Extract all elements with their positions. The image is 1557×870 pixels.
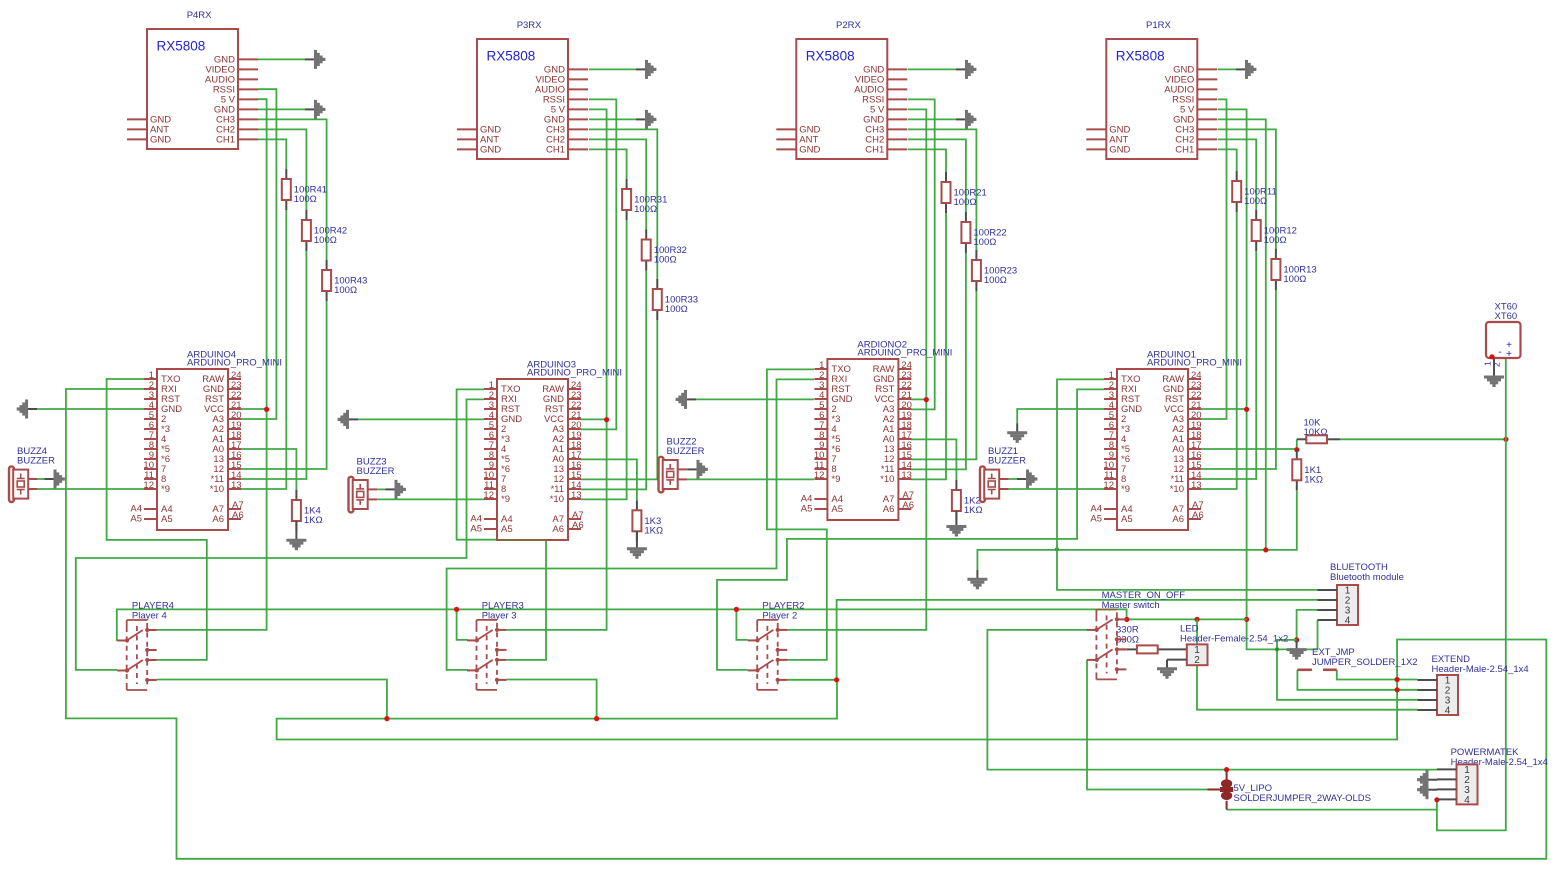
svg-text:CH1: CH1: [1175, 145, 1194, 156]
wire net GND1: 1K1 bottom to ground rail: [977, 490, 1296, 570]
svg-text:Header-Male-2.54_1x4: Header-Male-2.54_1x4: [1432, 664, 1529, 675]
RX5808 module P1RX: [1086, 20, 1217, 159]
connector XT60: [1483, 302, 1521, 368]
wire EXTEND pin2 from rail: [1397, 689, 1417, 691]
ground BUZZ4: [45, 470, 64, 489]
wire net CH1-4 upper: P4RX CH1 to R41: [258, 139, 286, 169]
junction XT60 pin1: [1489, 354, 1494, 359]
ground 1K2: [946, 511, 966, 535]
junction PLAYER3 contact4 bus: [594, 716, 599, 721]
junction EXT3 5V crossing: [1275, 647, 1279, 651]
wire player bus to PLAYER4 pivot1: [117, 609, 1127, 640]
wire net MASTER pivot1 - POWERMATEK pin1 bus: [987, 630, 1437, 770]
ground Bluetooth pin3: [1287, 640, 1307, 658]
wire net CH2-2 lower: R22 to ARDIONO2 pin14: [911, 253, 966, 469]
svg-text:P4RX: P4RX: [187, 10, 212, 21]
wire ARDUINO1 VCC stub: [1201, 408, 1247, 410]
svg-text:BUZZER: BUZZER: [667, 446, 705, 457]
wire net CH3-3 lower: R33 to ARDUINO3 pin15: [581, 320, 657, 479]
wire P2RX GND1 to ground: [908, 68, 956, 70]
ground BUZZ3: [386, 480, 405, 499]
svg-text:12: 12: [483, 490, 494, 501]
ground ARDIONO2 GND: [677, 390, 696, 409]
wire P3RX GND2 to ground: [589, 118, 636, 120]
wire P2RX GND2 to ground: [908, 118, 956, 120]
resistor 1K2 (1KΩ): [952, 480, 983, 521]
svg-text:BUZZER: BUZZER: [17, 456, 55, 467]
resistor 100R23 (100Ω): [972, 250, 1017, 291]
svg-text:RX5808: RX5808: [806, 49, 855, 64]
svg-text:A6: A6: [1192, 510, 1204, 521]
wire net CH1-1 lower: R11 to ARDUINO1 pin13: [1201, 212, 1237, 489]
ground 1K3: [627, 531, 647, 557]
resistor 100R33 (100Ω): [653, 279, 698, 320]
ground XT60: [1484, 377, 1504, 386]
svg-text:12: 12: [143, 480, 154, 491]
wire net 5V3: P3RX 5V - ARDUINO3 VCC - PLAYER3 contact1: [507, 109, 607, 630]
ground P4RX GND1: [305, 50, 324, 69]
svg-text:A5: A5: [470, 524, 482, 535]
ground BUZZ1: [1017, 470, 1036, 489]
resistor 100R42 (100Ω): [302, 210, 347, 251]
wire EXTEND pin1 from rail: [1397, 679, 1417, 681]
wire net CH3-1 lower: R13 to ARDUINO1 pin15: [1201, 290, 1276, 469]
svg-text:A5: A5: [161, 514, 173, 525]
svg-text:1KΩ: 1KΩ: [644, 525, 663, 536]
Arduino module ARDUINO4: [130, 350, 282, 531]
ground P4RX GND2: [305, 100, 324, 119]
svg-text:*9: *9: [1121, 484, 1130, 495]
wire net RXI3: ARDUINO3 RXI to PLAYER4 pivot2: [76, 399, 484, 670]
resistor 100R32 (100Ω): [642, 230, 687, 271]
wire net BT2: PLAYER2 contact4 up to Bluetooth pin2: [837, 600, 1318, 680]
svg-text:CH1: CH1: [216, 135, 235, 146]
svg-text:A5: A5: [1121, 514, 1133, 525]
svg-text:100Ω: 100Ω: [665, 304, 688, 315]
wire net CH3-3 upper: P3RX CH3 to R33: [589, 129, 657, 279]
svg-text:A5: A5: [801, 504, 813, 515]
wire ARDUINO3 VCC stub: [581, 418, 607, 420]
junction LED branch: [1194, 617, 1199, 622]
svg-text:100Ω: 100Ω: [654, 255, 677, 266]
junction TXO1 crossing: [1055, 547, 1059, 551]
wire net TXO1: ARDUINO1 TXO to Bluetooth pin1: [1057, 379, 1318, 590]
wire net CH2-4 lower: R42 to ARDUINO4 pin14: [241, 251, 306, 479]
wire EXT_JMP left pad to EXTEND pin2 rail: [1297, 670, 1397, 690]
svg-text:2: 2: [1194, 655, 1200, 666]
svg-text:CH1: CH1: [546, 145, 565, 156]
svg-text:BUZZER: BUZZER: [357, 466, 395, 477]
junction VCC3: [604, 417, 609, 422]
wire net RSSI2: P2RX RSSI to ARDIONO2 A3: [908, 99, 935, 409]
junction POWERMATEK pin4: [1434, 797, 1439, 802]
wire overlap ARDUINO3 bottom edge: [498, 539, 546, 541]
svg-text:*10: *10: [880, 474, 894, 485]
junction XT60 line: [1503, 437, 1508, 442]
wire net CH1-3 lower: R31 to ARDUINO3 pin13: [581, 220, 627, 499]
junction VCC1: [1244, 407, 1249, 412]
wire ARDIONO2 A0 to 1K2: [911, 439, 956, 480]
wire ARDUINO3 GND to ground: [358, 418, 484, 420]
wire net CH3-1 upper: P1RX CH3 to R13: [1218, 129, 1276, 249]
wire BUZZ2 top pin to ground: [686, 468, 688, 470]
svg-text:GND: GND: [799, 145, 820, 156]
wire BUZZ1 top pin to ground: [1009, 478, 1017, 480]
wire BUZZ1 bottom pin to ARDUINO1 pin12: [1009, 488, 1104, 490]
wire net EXT3: BT3 junction to EXTEND pin3: [1277, 640, 1418, 700]
wire net RSSI4: P4RX RSSI to ARDUINO4 A3: [241, 89, 276, 419]
svg-text:4: 4: [1464, 795, 1470, 806]
wire net RSSI1: P1RX RSSI to ARDUINO1 A3: [1201, 99, 1227, 419]
svg-text:10KΩ: 10KΩ: [1304, 427, 1328, 438]
ground ARDUINO1 GND: [1007, 424, 1027, 442]
wire net CH1-2 lower: R21 to ARDIONO2 pin13: [911, 213, 946, 479]
buzzer BUZZ1: [980, 446, 1026, 502]
ground 1K4: [286, 521, 306, 549]
header POWERMATEK: [1437, 747, 1548, 806]
wire PLAYER3 contact4 to bottom bus: [507, 680, 597, 719]
Arduino module ARDUINO3: [470, 360, 622, 541]
svg-text:12: 12: [1103, 480, 1114, 491]
resistor 100R21 (100Ω): [942, 172, 987, 213]
svg-text:SOLDERJUMPER_2WAY-OLDS: SOLDERJUMPER_2WAY-OLDS: [1234, 793, 1371, 804]
svg-text:GND: GND: [150, 135, 171, 146]
wire net BT3: Bluetooth pin3 to ground junction: [1297, 610, 1318, 640]
wire PLAYER2 pivot1 from bus: [736, 609, 747, 640]
switch PLAYER3: [467, 601, 524, 690]
ground POWERMATEK pin2: [1419, 770, 1438, 789]
svg-text:-: -: [1498, 347, 1501, 358]
svg-text:XT60: XT60: [1495, 311, 1518, 322]
svg-text:RX5808: RX5808: [1116, 49, 1165, 64]
wire ARDUINO3 A0 to 1K3: [581, 459, 637, 500]
wire ARDIONO2 VCC stub: [911, 398, 926, 400]
svg-text:RX5808: RX5808: [157, 39, 206, 54]
wire BUZZ4 top pin to ground: [38, 478, 45, 480]
ground P2RX GND2: [956, 110, 975, 129]
junction PLAYER4 contact4 bus: [384, 716, 389, 721]
junction PLAYER2 contact4: [834, 677, 839, 682]
junction PLAYER2 bus: [734, 607, 739, 612]
svg-text:BUZZER: BUZZER: [988, 456, 1026, 467]
wire BUZZ3 top pin to ground: [377, 488, 385, 490]
svg-text:A6: A6: [232, 510, 244, 521]
resistor 100R13 (100Ω): [1271, 249, 1316, 290]
resistor 10K (10KOhm): [1297, 418, 1340, 444]
svg-text:P1RX: P1RX: [1146, 20, 1171, 31]
resistor 100R11 (100Ω): [1232, 171, 1277, 212]
svg-text:Bluetooth module: Bluetooth module: [1330, 572, 1404, 583]
wire PLAYER4 contact4 to bottom bus: [157, 680, 387, 719]
svg-text:1KΩ: 1KΩ: [1304, 474, 1323, 485]
svg-text:100Ω: 100Ω: [984, 275, 1007, 286]
wire EXT_JMP right pad to EXTEND pin1 rail: [1337, 670, 1397, 680]
wire net XT60: pin2 down to POWERMATEK pin4: [1437, 359, 1506, 831]
wire 10K right lead to XT60 line: [1340, 438, 1506, 440]
resistor 100R41 (100Ω): [282, 169, 327, 210]
junction BT3 ground: [1294, 637, 1299, 642]
svg-text:CH1: CH1: [865, 145, 884, 156]
wire P3RX GND1 to ground: [589, 68, 636, 70]
RX5808 module P4RX: [127, 10, 258, 149]
wire net CH1-1 upper: P1RX CH1 to R11: [1218, 149, 1237, 171]
wire net CH3-4 lower: R43 to ARDUINO4 pin15: [241, 301, 327, 469]
Arduino module ARDIONO2: [801, 340, 953, 521]
ground BUZZ2: [688, 460, 707, 479]
svg-text:Header-Female-2.54_1x2: Header-Female-2.54_1x2: [1180, 634, 1288, 645]
resistor 100R43 (100Ω): [322, 260, 367, 301]
junction master bus at 5V vertical: [1244, 617, 1249, 622]
switch PLAYER2: [748, 601, 805, 690]
wire net CH2-1 lower: R12 to ARDUINO1 pin14: [1201, 251, 1256, 479]
wire P4RX GND2 to ground: [258, 108, 305, 110]
svg-text:*10: *10: [210, 484, 224, 495]
svg-text:*9: *9: [161, 484, 170, 495]
svg-text:100Ω: 100Ω: [954, 197, 977, 208]
wire net MASTER pivot2 to 5V_LIPO middle: [1087, 660, 1208, 790]
junction A0-1 10K 1K1: [1294, 447, 1299, 452]
svg-text:*10: *10: [1170, 484, 1184, 495]
svg-text:1KΩ: 1KΩ: [964, 505, 983, 516]
wire BUZZ2 bottom pin to ARDIONO2 pin12: [687, 478, 814, 480]
resistor 1K1 (1KΩ): [1292, 449, 1323, 490]
ground GND1 rail: [967, 570, 987, 588]
wire PLAYER2 contact4 to junction: [787, 679, 837, 681]
ground POWERMATEK pin3: [1419, 780, 1438, 799]
wire net TXO4: ARDUINO4 TXO to PLAYER4 contact3: [107, 379, 207, 660]
svg-text:ARDUINO_PRO_MINI: ARDUINO_PRO_MINI: [187, 358, 282, 369]
wire net CH1-3 upper: P3RX CH1 to R31: [589, 149, 627, 179]
junction EXTEND pin2: [1395, 687, 1400, 692]
svg-text:4: 4: [1445, 706, 1451, 717]
ground P2RX GND1: [956, 60, 975, 79]
junction GND1 rail: [1263, 547, 1268, 552]
wire net CH3-2 lower: R23 to ARDIONO2 pin15: [911, 291, 976, 459]
Arduino module ARDUINO1: [1090, 350, 1242, 531]
svg-text:13: 13: [231, 480, 242, 491]
resistor 100R22 (100Ω): [961, 212, 1006, 253]
wire net CH3-2 upper: P2RX CH3 to R23: [908, 129, 976, 250]
svg-text:4: 4: [1345, 616, 1351, 627]
wire LED pin2 to ground: [1167, 660, 1187, 669]
junction MASTER contact1: [1124, 617, 1129, 622]
svg-text:A5: A5: [1090, 514, 1102, 525]
resistor 330R (330Ohm): [1116, 625, 1187, 654]
wire net 5V_LIPO bottom east: [1227, 809, 1437, 811]
junction PLAYER3 bus: [454, 607, 459, 612]
svg-text:A5: A5: [831, 504, 843, 515]
svg-text:A6: A6: [883, 504, 895, 515]
header BLUETOOTH: [1318, 562, 1404, 627]
wire net 5V4: P4RX 5V - ARDUINO4 VCC - PLAYER4 contact1: [157, 99, 267, 630]
wire net 5V1: P1RX 5V - ARDUINO1 VCC - master bus - Bluetooth pin4: [1218, 109, 1318, 649]
buzzer BUZZ4: [9, 446, 55, 502]
solder jumper 5V_LIPO: [1208, 770, 1371, 810]
svg-text:ARDUINO_PRO_MINI: ARDUINO_PRO_MINI: [527, 368, 622, 379]
svg-text:*10: *10: [550, 494, 564, 505]
wire ARDUINO4 A0 to 1K4: [241, 449, 296, 490]
svg-text:100Ω: 100Ω: [1244, 196, 1267, 207]
wire net 5V2: P2RX 5V - ARDIONO2 VCC - PLAYER2 contact1: [787, 109, 926, 630]
wire P1RX GND1 to ground: [1218, 68, 1236, 70]
wire net CH1-2 upper: P2RX CH1 to R21: [908, 149, 946, 172]
resistor 1K4 (1KΩ): [292, 490, 323, 531]
ground ARDUINO3 GND: [339, 410, 358, 429]
wire net RXI4: ARDUINO4 RXI - bottom bus - frame to EXTEND: [66, 389, 1546, 859]
wire BUZZ3 bottom pin to ARDUINO3 pin12: [377, 498, 484, 500]
svg-text:RX5808: RX5808: [487, 49, 536, 64]
svg-text:13: 13: [571, 490, 582, 501]
svg-text:P3RX: P3RX: [517, 20, 542, 31]
junction EXTEND pin1: [1395, 677, 1400, 682]
wire ARDUINO4 GND to ground: [37, 408, 144, 410]
junction 5V_LIPO top: [1224, 767, 1229, 772]
svg-text:A5: A5: [501, 524, 513, 535]
RX5808 module P2RX: [776, 20, 907, 159]
wire net TXO3: ARDUINO3 TXO to PLAYER3 contact3: [457, 389, 546, 660]
wire XT60 pin1 to ground: [1493, 358, 1495, 377]
wire net CH2-3 lower: R32 to ARDUINO3 pin14: [581, 271, 646, 490]
svg-text:A6: A6: [552, 524, 564, 535]
wire overlap MASTER_ON_OFF frame top: [1097, 608, 1117, 610]
svg-text:100Ω: 100Ω: [294, 194, 317, 205]
wire ARDUINO1 GND to ground: [1017, 409, 1104, 424]
switch MASTER_ON_OFF: [1087, 590, 1185, 679]
wire BUZZ4 bottom pin to ARDUINO4 pin12: [38, 488, 144, 490]
wire net CH2-4 upper: P4RX CH2 to R42: [258, 129, 306, 210]
resistor 100R12 (100Ω): [1252, 210, 1297, 251]
svg-text:100Ω: 100Ω: [1283, 274, 1306, 285]
RX5808 module P3RX: [457, 20, 588, 159]
svg-text:*9: *9: [501, 494, 510, 505]
svg-text:100Ω: 100Ω: [334, 285, 357, 296]
wire net RXI1: ARDUINO1 RXI to PLAYER2 pivot2: [717, 389, 1104, 670]
switch PLAYER4: [117, 601, 174, 690]
wire net GND1HV: P1RX GND2 down to 1K1 net: [1218, 119, 1266, 550]
wire ARDUINO1 A0 to 10K/1K1 junction: [1201, 439, 1297, 449]
wire net CH2-2 upper: P2RX CH2 to R22: [908, 139, 966, 212]
wire ARDUINO4 VCC stub to 5V junction: [241, 408, 267, 410]
svg-text:+: +: [1506, 349, 1512, 360]
wire net CH2-3 upper: P3RX CH2 to R32: [589, 139, 646, 229]
ground ARDUINO4 GND: [18, 400, 37, 419]
svg-text:*9: *9: [831, 474, 840, 485]
svg-text:100Ω: 100Ω: [973, 237, 996, 248]
svg-text:A6: A6: [1172, 514, 1184, 525]
junction VCC2: [924, 397, 929, 402]
svg-text:P2RX: P2RX: [836, 20, 861, 31]
wire net RXI2: ARDIONO2 RXI to PLAYER3 pivot2: [447, 379, 814, 670]
svg-text:100Ω: 100Ω: [634, 204, 657, 215]
svg-text:100Ω: 100Ω: [1264, 235, 1287, 246]
svg-text:A6: A6: [212, 514, 224, 525]
wire net CH2-1 upper: P1RX CH2 to R12: [1218, 139, 1256, 210]
wire net CH3-4 upper: P4RX CH3 to R43: [258, 119, 327, 260]
ground P3RX GND1: [636, 60, 655, 79]
wire net CH1-4 lower: R41 to ARDUINO4 pin13: [241, 210, 286, 489]
buzzer BUZZ2: [659, 436, 705, 492]
svg-text:JUMPER_SOLDER_1X2: JUMPER_SOLDER_1X2: [1312, 657, 1418, 668]
svg-text:ARDUINO_PRO_MINI: ARDUINO_PRO_MINI: [1147, 358, 1242, 369]
resistor 100R31 (100Ω): [622, 179, 667, 220]
solder jumper EXT_JMP: [1297, 647, 1417, 670]
svg-text:13: 13: [901, 470, 912, 481]
svg-text:GND: GND: [480, 145, 501, 156]
wire ARDIONO2 GND to ground: [696, 398, 814, 400]
svg-text:12: 12: [814, 470, 825, 481]
svg-text:A5: A5: [130, 514, 142, 525]
ground P1RX GND1: [1236, 60, 1255, 79]
wire net RSSI3: P3RX RSSI to ARDUINO3 A3: [581, 99, 616, 429]
svg-text:100Ω: 100Ω: [314, 235, 337, 246]
wire PLAYER3 pivot1 from bus: [457, 609, 468, 640]
wire MASTER contact3 lead to 330R: [1117, 648, 1127, 650]
header EXTEND: [1418, 654, 1529, 717]
header LED: [1180, 624, 1288, 667]
svg-text:13: 13: [1191, 480, 1202, 491]
resistor 1K3 (1KΩ): [632, 500, 663, 541]
ground LED pin2: [1157, 669, 1177, 678]
ground P3RX GND2: [636, 110, 655, 129]
wire P4RX GND1 to ground: [258, 58, 305, 60]
buzzer BUZZ3: [349, 456, 395, 512]
svg-text:A6: A6: [572, 520, 584, 531]
svg-text:1KΩ: 1KΩ: [304, 515, 323, 526]
wire master bus: MASTER contact1 east: [1127, 618, 1247, 620]
svg-text:A6: A6: [902, 500, 914, 511]
wire net TXO2: ARDIONO2 TXO to PLAYER2 contact3: [767, 369, 827, 660]
junction VCC4: [264, 407, 269, 412]
svg-text:GND: GND: [1109, 145, 1130, 156]
wire net LED-EXTEND4: bus down through LED header to EXTEND pin4: [1197, 619, 1418, 709]
svg-text:ARDUINO_PRO_MINI: ARDUINO_PRO_MINI: [857, 348, 952, 359]
